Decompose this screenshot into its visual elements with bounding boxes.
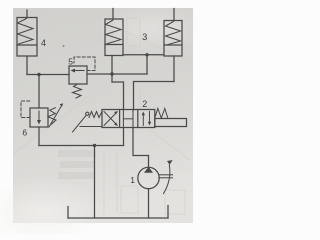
wire valve P port to pump — [133, 128, 149, 156]
valve 2 left spring — [89, 112, 102, 118]
wire accumulator 4 down — [26, 56, 28, 75]
accumulator 4 — [17, 18, 37, 57]
reducing valve 6 — [30, 108, 48, 127]
accumulator 3 right stub wire — [173, 9, 175, 21]
svg-text:5: 5 — [68, 57, 73, 67]
valve 2 right spring — [155, 109, 168, 119]
node junction dot — [37, 73, 40, 76]
accumulator 3 right — [164, 21, 182, 57]
node junction dot — [145, 53, 148, 56]
pump variable arrow — [164, 160, 173, 194]
wire relief outlet to junction — [87, 73, 147, 75]
wire between accumulator bottoms — [123, 54, 164, 56]
wire accumulator4 to relief inlet — [27, 74, 69, 76]
relief valve 5 pilot dashed line — [74, 57, 95, 71]
wire pump outlet — [148, 156, 150, 168]
wire accumulator 3 left down — [111, 56, 113, 83]
svg-text:1: 1 — [130, 175, 135, 185]
ghost text smudge — [58, 150, 96, 179]
directional valve 2 body — [102, 110, 155, 128]
wire from junction down — [146, 55, 148, 74]
pump 1 — [138, 167, 159, 189]
valve 2 right box — [155, 119, 187, 127]
wire pump suction — [148, 189, 150, 218]
relief valve 5 — [69, 66, 87, 84]
wire valve T port down — [123, 128, 125, 146]
valve 2 lever actuator — [73, 112, 103, 132]
svg-text:6: 6 — [22, 127, 27, 137]
tank — [68, 206, 168, 219]
page background — [0, 0, 218, 234]
svg-text:3: 3 — [142, 32, 147, 42]
accumulator 3 left — [105, 19, 123, 56]
speck — [62, 45, 64, 47]
pump shaft lines — [159, 175, 173, 178]
accumulator 4 stub wire — [26, 10, 28, 18]
reducing valve 6 adjust arrow — [49, 103, 63, 127]
wire valve 6 down — [38, 127, 40, 146]
wire to valve port B — [134, 82, 175, 111]
node junction dot — [93, 144, 96, 147]
wire down to valve 6 — [38, 75, 40, 109]
scanned paper area — [13, 8, 193, 223]
accumulator 3 left stub wire — [112, 9, 114, 20]
valve 2 parallel arrows position — [142, 112, 152, 126]
relief valve 5 spring — [73, 84, 82, 98]
wire step to valve port A — [112, 82, 124, 110]
svg-text:2: 2 — [142, 99, 147, 109]
node junction dot — [110, 72, 113, 75]
ghost bleed-through marks — [14, 16, 190, 214]
wire tank return run — [39, 145, 124, 147]
valve 2 crossed arrows position — [104, 111, 118, 126]
reducing valve 6 spring — [48, 108, 56, 125]
reducing valve 6 pilot dashed line — [21, 101, 31, 118]
wire accumulator 3 right down — [173, 56, 175, 82]
svg-text:4: 4 — [41, 38, 46, 48]
wire to tank — [94, 146, 96, 219]
valve 2 blocked centre position — [123, 110, 133, 128]
